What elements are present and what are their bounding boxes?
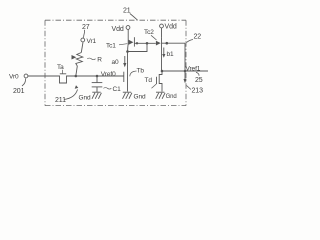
value label R — [87, 56, 102, 63]
reference numeral 213 (labels output stub) — [187, 86, 204, 95]
capacitor C1 — [92, 76, 103, 92]
reference numeral 22 — [187, 33, 202, 42]
reference numeral 27 (labels terminal Vr1) — [82, 24, 90, 38]
node output junction at Tc2/Td — [161, 70, 164, 73]
svg-text:R: R — [97, 56, 102, 63]
svg-text:Gnd: Gnd — [166, 94, 177, 100]
node on drain stub — [166, 42, 169, 45]
wire gate bus Tc1-Tc2 — [134, 42, 155, 44]
node drain of Tc1 — [126, 50, 129, 53]
svg-text:Ta: Ta — [57, 64, 64, 71]
svg-text:Vr0: Vr0 — [9, 74, 19, 81]
svg-text:201: 201 — [13, 88, 25, 95]
svg-text:Gnd: Gnd — [134, 94, 146, 101]
transistor Tc2 label — [144, 29, 157, 40]
svg-text:25: 25 — [195, 77, 203, 84]
svg-text:C1: C1 — [113, 86, 122, 93]
svg-text:Vdd: Vdd — [165, 24, 177, 31]
transistor Tb (gate bar + channel line) — [124, 52, 128, 92]
terminal Vr0 — [9, 74, 28, 81]
transistor Ta gate — [60, 73, 66, 75]
svg-text:Tb: Tb — [137, 68, 145, 75]
current arrow b1 (drain current of Tc2) — [162, 48, 174, 59]
svg-text:b1: b1 — [167, 51, 175, 58]
current direction arrow at resistor R — [72, 55, 77, 60]
power terminal Vdd (left) — [112, 26, 130, 44]
node output junction right — [184, 70, 187, 73]
wire Tc2 gate/drain stub to right drop — [162, 42, 186, 44]
wire Vr0 input with transistor Ta channel dip — [28, 76, 124, 83]
stub with current arrow below output node — [184, 71, 187, 83]
svg-text:Tc2: Tc2 — [144, 29, 154, 36]
transistor Td label — [145, 77, 157, 88]
node tie junction on gate bus — [146, 42, 149, 45]
svg-text:Vr1: Vr1 — [87, 38, 97, 45]
reference numeral 201 (labels terminal Vr0) — [13, 79, 26, 96]
reference numeral 21 (labels the box) — [123, 8, 138, 21]
svg-text:211: 211 — [55, 97, 66, 104]
reference numeral 25 (labels output wire) — [195, 72, 203, 84]
svg-text:Vref1: Vref1 — [186, 65, 201, 72]
value label C1 — [104, 86, 122, 93]
transistor Ta label — [57, 64, 64, 74]
reference numeral 211 (labels Ta) — [55, 85, 78, 104]
transistor Td (gate bar + channel line) — [157, 71, 163, 92]
svg-text:213: 213 — [192, 88, 204, 95]
terminal Vr1 — [81, 38, 97, 45]
svg-text:27: 27 — [82, 24, 90, 31]
svg-text:Td: Td — [145, 77, 153, 84]
ground symbol below Td — [156, 92, 165, 99]
node junction of capacitor C1 branch — [96, 75, 99, 78]
power terminal Vdd (right) — [160, 24, 177, 38]
svg-text:Tc1: Tc1 — [106, 42, 116, 49]
wire output Vref1 (crosses right border) — [162, 70, 208, 72]
svg-text:Vdd: Vdd — [112, 26, 124, 33]
transistor Tc1 label — [106, 42, 127, 49]
svg-text:22: 22 — [194, 33, 202, 40]
node junction of R branch on input wire — [75, 75, 78, 78]
ground symbol below Tb — [123, 92, 132, 99]
transistor Tc2 (PMOS mirror output) — [156, 37, 162, 47]
svg-text:Vref0: Vref0 — [101, 71, 116, 78]
wire diode tie (Tc1 drain to gate bus) — [128, 43, 148, 51]
current arrow a0 (drain current of Tb) — [112, 56, 127, 67]
svg-text:Gnd: Gnd — [79, 95, 91, 102]
transistor Tc1 (PMOS, diode-connected) — [128, 37, 135, 51]
resistor R (vertical zigzag from Vr1 to input wire) — [76, 42, 83, 76]
circuit block boundary box 21 (dash-dot) — [45, 20, 186, 105]
ground symbol below C1 — [92, 92, 101, 99]
wire Tc2 drain down to output node — [161, 47, 163, 71]
svg-text:a0: a0 — [112, 59, 120, 66]
svg-text:21: 21 — [123, 8, 131, 15]
wire right drop to output — [184, 43, 186, 71]
transistor Tb label — [130, 68, 145, 77]
node gate bus left junction — [136, 42, 138, 44]
